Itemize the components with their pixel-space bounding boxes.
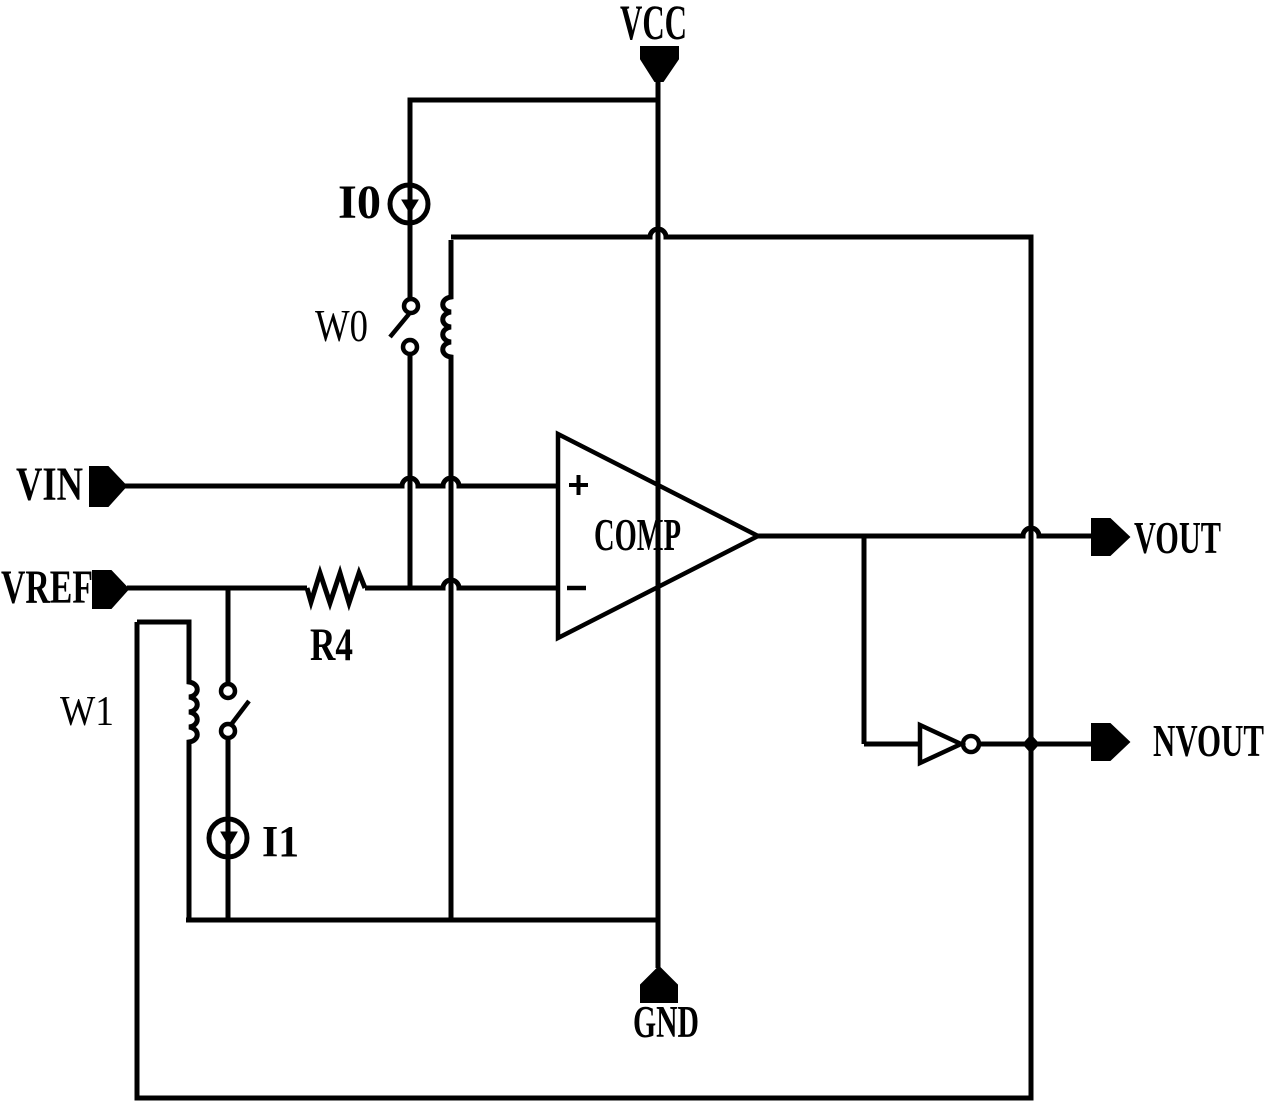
- op-amp comparator COMP triangle: [558, 434, 758, 638]
- svg-text:COMP: COMP: [594, 509, 681, 560]
- wire VCC top branch: horizontal y=99 from x=410 to VCC rail, corner down at x=410: [410, 100, 658, 298]
- power rail VCC vertical line x=658 from VCC symbol to GND symbol: [656, 78, 661, 968]
- current source I0 arrowhead: [402, 200, 418, 213]
- svg-text:W0: W0: [315, 301, 368, 351]
- wire W0 branch lower: x=410 from switch to VREF wire: [408, 354, 413, 588]
- VCC terminal symbol: [641, 47, 678, 81]
- svg-text:VIN: VIN: [16, 458, 83, 511]
- svg-text:R4: R4: [310, 619, 353, 671]
- outer loop wire: left edge x=137, bottom edge y=1098, right edge x=1031, top edge y=237 with hop over VCC rail: [137, 229, 1031, 1098]
- svg-text:VREF: VREF: [1, 561, 93, 614]
- svg-text:I1: I1: [262, 817, 299, 866]
- winding W1 branch: top corner wire (137,622)-(189,622), coil, down to bottom common wire: [137, 622, 197, 920]
- inverter bubble: [963, 736, 979, 752]
- wire W1 branch from VREF wire down to switch W1: [226, 588, 231, 684]
- VREF terminal arrow: [93, 571, 128, 608]
- wire inverter input: [864, 742, 920, 747]
- current source I0 circle: [390, 185, 428, 223]
- current source I1 arrowhead: [221, 832, 237, 846]
- switch W0 upper contact circle: [404, 299, 418, 313]
- svg-text:VCC: VCC: [620, 0, 687, 50]
- svg-text:W1: W1: [60, 689, 114, 735]
- resistor R4 zigzag: [307, 573, 365, 603]
- switch W1 upper contact circle: [221, 684, 235, 698]
- svg-text:I0: I0: [338, 176, 381, 229]
- svg-text:VOUT: VOUT: [1134, 512, 1221, 563]
- wire VIN to comparator + input with hops over x=410 and x=451: [124, 478, 558, 486]
- wire inverter output to NVOUT crossing x=1031: [979, 742, 1091, 747]
- junction dot at NVOUT wire and right edge: [1023, 735, 1039, 753]
- wire comparator output to VOUT with hop over x=1031: [758, 528, 1091, 536]
- switch W0 lower contact circle: [403, 340, 417, 354]
- current source I1 circle: [209, 819, 247, 857]
- wire switch W1 to current source I1 and bottom common wire: [226, 738, 231, 920]
- NVOUT terminal arrow: [1092, 724, 1129, 760]
- winding W0 branch: rect top edge corner at (451,237), coil, down to bottom common wire: [443, 240, 451, 920]
- bottom common wire y=920 from winding W1 to GND rail: [186, 918, 658, 923]
- wire VREF to resistor R4: [127, 586, 307, 591]
- svg-text:NVOUT: NVOUT: [1153, 715, 1264, 766]
- switch W0 lever: [390, 314, 409, 337]
- inverter U1 triangle: [920, 725, 961, 763]
- wire output branch down to inverter x=864: [862, 536, 867, 744]
- switch W1 lower contact circle: [221, 724, 235, 738]
- svg-text:GND: GND: [633, 997, 699, 1047]
- wire R4 to comparator - input with hop over x=451: [365, 580, 558, 588]
- VIN terminal arrow: [90, 467, 126, 506]
- VOUT terminal arrow: [1092, 519, 1129, 555]
- comparator - input sign: [567, 586, 586, 591]
- GND terminal symbol: [641, 967, 677, 1002]
- switch W1 lever: [230, 701, 249, 726]
- comparator + input sign: [569, 475, 588, 495]
